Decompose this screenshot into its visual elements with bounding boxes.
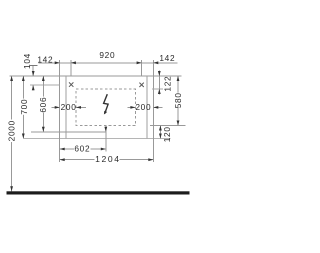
svg-text:2000: 2000 — [6, 120, 16, 141]
svg-text:700: 700 — [19, 99, 29, 115]
svg-text:104: 104 — [22, 53, 32, 69]
svg-text:200: 200 — [135, 102, 151, 112]
svg-text:920: 920 — [99, 50, 115, 60]
svg-text:200: 200 — [61, 102, 77, 112]
svg-text:142: 142 — [37, 54, 53, 64]
svg-text:1204: 1204 — [95, 154, 121, 164]
svg-text:122: 122 — [162, 76, 172, 92]
svg-text:580: 580 — [173, 92, 183, 108]
svg-text:120: 120 — [162, 126, 172, 142]
svg-text:142: 142 — [159, 53, 175, 63]
svg-text:606: 606 — [38, 97, 48, 113]
svg-text:602: 602 — [74, 144, 90, 154]
